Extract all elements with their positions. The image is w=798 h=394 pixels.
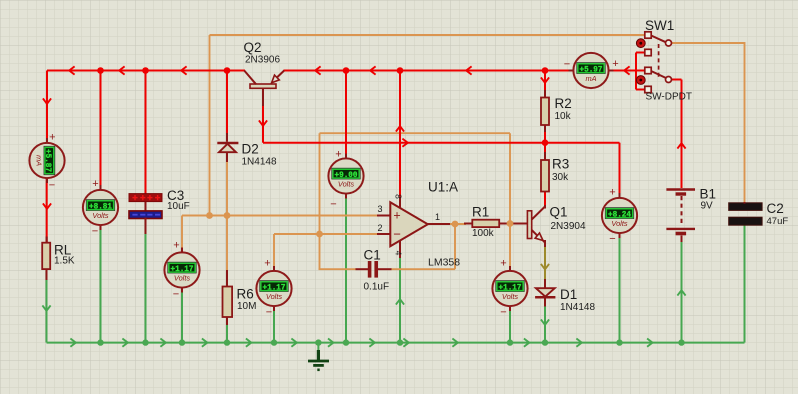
svg-text:+: + <box>335 149 341 161</box>
wire arrow g1 <box>70 339 75 347</box>
meter voltmeter VM5 +1.17 <box>509 266 511 273</box>
wire C1 left horizontal <box>319 268 357 270</box>
svg-text:Volts: Volts <box>92 211 108 220</box>
wire arrow g14 <box>42 305 50 310</box>
wire meter +8.24 drop <box>619 143 621 199</box>
wire Q2 base lead <box>262 89 264 107</box>
node mid junction R2 R3 <box>542 139 549 146</box>
svg-text:+: + <box>92 178 98 190</box>
node ground bus junction x545 <box>542 339 548 345</box>
wire arrow g6 <box>291 339 296 347</box>
wire U1 pin8 lead <box>399 197 401 209</box>
svg-text:−: − <box>609 233 615 245</box>
wire arrow g15 <box>677 290 685 295</box>
wire U1 pin4 lead <box>399 241 401 259</box>
wire RL to bus <box>46 279 48 343</box>
svg-text:B1: B1 <box>700 187 717 202</box>
wire arrow a2 <box>119 66 124 74</box>
battery B1 9V <box>666 188 695 190</box>
svg-text:+: + <box>500 258 506 270</box>
wire meter +8.81 to bus <box>100 225 102 343</box>
wire battery vertical <box>681 80 683 189</box>
wire D1 lead bottom <box>544 298 546 306</box>
svg-text:+: + <box>49 132 55 144</box>
node inv net junction <box>316 231 323 238</box>
svg-text:R3: R3 <box>552 157 569 172</box>
wire R6 lead bottom <box>226 317 228 326</box>
meter voltmeter VM1 +8.81 <box>100 185 102 192</box>
wire arrow g9 <box>403 339 408 347</box>
svg-text:SW1: SW1 <box>645 18 674 33</box>
wire arrow a11 <box>402 139 407 147</box>
wire C2 lead top <box>744 202 746 204</box>
node ground bus junction x681.5 <box>678 339 684 345</box>
wire arrow a1 <box>69 66 74 74</box>
svg-text:Volts: Volts <box>338 180 354 189</box>
wire C1 right horizontal <box>391 268 455 270</box>
wire meter +1.17 B to bus <box>273 306 275 343</box>
wire arrow g5 <box>246 339 251 347</box>
meter ammeter AM1 +5.87 mA <box>46 138 48 145</box>
wire switch to battery horizontal <box>669 79 682 81</box>
wire opamp pin4 to bus <box>399 257 401 343</box>
wire arrow D1 current down <box>541 264 549 269</box>
node ground bus junction x318.4 <box>315 339 321 345</box>
wire arrow g10 <box>452 339 457 347</box>
svg-text:Q1: Q1 <box>550 205 568 220</box>
wire R2 lead top <box>544 90 546 98</box>
wire arrow g3 <box>160 339 165 347</box>
wire arrow a10 <box>259 120 267 125</box>
capacitor C3 10uF <box>145 200 147 212</box>
wire U1 pin3 lead <box>377 215 390 217</box>
svg-text:LM358: LM358 <box>428 257 460 269</box>
wire C2 vertical <box>744 42 746 203</box>
switch SW1 SW-DPDT <box>650 35 666 42</box>
node ground bus junction x346 <box>343 339 349 345</box>
wire net top left vertical <box>209 35 211 216</box>
wire B1 lead bottom <box>681 236 683 243</box>
resistor R6 10M <box>223 287 233 318</box>
svg-text:SW-DPDT: SW-DPDT <box>646 92 692 103</box>
svg-text:Volts: Volts <box>502 292 518 301</box>
wire D2 lead top <box>226 133 228 142</box>
wire R3 lead top <box>544 152 546 160</box>
svg-text:−: − <box>330 199 336 211</box>
wire C1 lead right <box>378 268 392 270</box>
svg-text:1N4148: 1N4148 <box>242 157 277 168</box>
wire D2 drop <box>226 71 228 137</box>
wire ammeter drop <box>46 71 48 144</box>
svg-text:mA: mA <box>34 155 43 166</box>
switch toggle button 1 <box>636 39 645 48</box>
wire switch link stub top <box>636 52 645 54</box>
node ground bus junction x619.5 <box>616 339 622 345</box>
wire arrow a4 <box>315 66 320 74</box>
wire opamp pin8 drop <box>399 71 401 198</box>
meter voltmeter VM3 +1.17 <box>181 248 183 255</box>
switch toggle button 2 <box>636 76 645 85</box>
wire top bus right <box>284 70 574 72</box>
wire ground bus <box>47 342 745 344</box>
node ground bus junction x145.5 <box>142 339 148 345</box>
svg-text:1: 1 <box>435 212 440 222</box>
wire C3 to bus <box>145 233 147 343</box>
wire inv net meter drop <box>273 234 275 268</box>
node top bus junction x545 <box>542 67 549 74</box>
wire meter +1.17 A to bus <box>181 288 183 343</box>
svg-text:2: 2 <box>377 223 382 233</box>
wire +9.00 meter drop <box>345 71 347 160</box>
svg-text:8: 8 <box>394 194 404 199</box>
svg-text:0.1uF: 0.1uF <box>364 282 390 293</box>
svg-text:+: + <box>173 240 179 252</box>
wire input net horizontal <box>182 215 377 217</box>
wire arrow a5 <box>370 66 375 74</box>
node ground bus junction x274 <box>271 339 277 345</box>
capacitor C2 47uF <box>729 203 762 211</box>
svg-text:Volts: Volts <box>174 274 190 283</box>
svg-text:10uF: 10uF <box>167 201 190 212</box>
wire meter +8.81 drop <box>100 71 102 191</box>
diode D2 1N4148 <box>219 144 236 152</box>
svg-text:47uF: 47uF <box>767 216 789 227</box>
wire R2 lead bottom <box>544 125 546 133</box>
wire input net meter drop <box>181 216 183 250</box>
svg-text:3: 3 <box>377 204 382 214</box>
svg-text:1.5K: 1.5K <box>54 256 75 267</box>
wire feedback top horizontal <box>320 132 511 134</box>
resistor R1 100k <box>472 220 499 227</box>
wire RL lead bottom <box>46 269 48 280</box>
wire U1 pin1 lead <box>428 223 451 225</box>
resistor R3 30k <box>541 160 549 192</box>
svg-text:−: − <box>92 226 98 238</box>
svg-text:+: + <box>393 209 400 223</box>
wire feedback right vertical <box>509 133 511 268</box>
wire Q1 emitter to D1 <box>544 246 546 281</box>
ground <box>317 343 319 351</box>
svg-text:R1: R1 <box>472 205 489 220</box>
node top bus junction x100.5 <box>97 67 104 74</box>
wire arrow g16 <box>541 319 549 324</box>
svg-text:C2: C2 <box>767 201 784 216</box>
wire switch link vertical <box>635 53 637 90</box>
svg-text:10k: 10k <box>555 111 572 122</box>
wire inv net horizontal <box>274 233 377 235</box>
meter voltmeter VM6 +8.24 <box>619 193 621 200</box>
diode D1 1N4148 <box>536 288 555 296</box>
node top bus junction x227 <box>224 67 231 74</box>
node top bus junction x346 <box>343 67 350 74</box>
wire top bus left <box>47 70 245 72</box>
meter voltmeter VM4 +1.17 <box>273 266 275 273</box>
node ground bus junction x510 <box>507 339 513 345</box>
transistor Q2 2N3906 <box>250 84 276 88</box>
node top bus junction x400 <box>397 67 404 74</box>
svg-text:−: − <box>393 227 401 242</box>
svg-text:9V: 9V <box>701 201 714 212</box>
wire output to R1 <box>449 223 466 225</box>
capacitor C1 0.1uF <box>368 261 372 278</box>
wire arrow g12 <box>576 339 581 347</box>
svg-text:+: + <box>612 58 618 70</box>
svg-text:1N4148: 1N4148 <box>560 302 595 313</box>
transistor Q1 2N3904 <box>527 211 531 239</box>
wire arrow a6 <box>466 66 471 74</box>
wire D2 lead bottom <box>226 152 228 162</box>
svg-text:2N3906: 2N3906 <box>245 55 280 66</box>
node ground bus junction x400 <box>397 339 403 345</box>
svg-text:100k: 100k <box>472 228 495 239</box>
svg-text:−: − <box>500 307 506 319</box>
node input net junction x209.5 <box>206 212 213 219</box>
wire R2 top <box>544 71 546 99</box>
wire Q2 base down <box>262 104 264 143</box>
wire arrow a14 <box>677 143 685 148</box>
meter ammeter AM2 +5.97 mA <box>569 70 576 72</box>
wire arrow g7 <box>328 339 333 347</box>
wire C2 to bus <box>744 226 746 343</box>
wire arrow a12 <box>396 126 404 131</box>
svg-text:−: − <box>49 180 55 192</box>
node base net junction <box>507 220 514 227</box>
wire arrow g4 <box>202 339 207 347</box>
wire RL lead top <box>46 237 48 244</box>
node output net junction <box>452 221 459 228</box>
wire C3 lead bottom <box>145 218 147 235</box>
wire meter +8.24 to bus <box>619 233 621 343</box>
resistor R2 10k <box>541 98 549 126</box>
svg-text:−: − <box>266 307 272 319</box>
wire D1 lead top <box>544 279 546 288</box>
wire arrow g17 <box>396 299 404 304</box>
svg-text:D1: D1 <box>560 287 577 302</box>
wire arrow a13 <box>541 77 549 82</box>
svg-text:−: − <box>173 289 179 301</box>
wire mid horizontal <box>263 142 620 144</box>
wire U1 pin2 lead <box>377 233 390 235</box>
node top bus junction x145.5 <box>142 67 149 74</box>
node ground bus junction x182 <box>179 339 185 345</box>
svg-text:10M: 10M <box>237 301 256 312</box>
wire R1 lead left <box>464 223 473 225</box>
meter voltmeter VM2 +9.00 <box>345 154 347 161</box>
wire R3 to Q1 <box>544 192 546 209</box>
wire switch to C2 horizontal <box>669 42 745 44</box>
node ground bus junction x227 <box>224 339 230 345</box>
wire arrow a9 <box>43 203 51 208</box>
wire +9.00 meter to bus <box>345 194 347 343</box>
wire arrow g8 <box>369 339 374 347</box>
wire arrow g2 <box>122 339 127 347</box>
svg-text:U1:A: U1:A <box>428 180 458 195</box>
wire battery to bus <box>681 241 683 343</box>
wire D2 to R6 vertical <box>226 158 228 272</box>
svg-text:R6: R6 <box>237 287 254 302</box>
svg-text:C1: C1 <box>364 248 381 263</box>
resistor RL 1.5K <box>42 243 50 269</box>
wire ammeter to RL <box>46 178 48 243</box>
node input net junction x227 <box>224 212 231 219</box>
svg-text:4: 4 <box>394 251 404 256</box>
svg-text:2N3904: 2N3904 <box>551 221 586 232</box>
wire R2 to R3 <box>544 125 546 160</box>
wire arrow a7 <box>624 66 629 74</box>
svg-text:+: + <box>609 187 615 199</box>
svg-text:Volts: Volts <box>611 219 627 228</box>
wire net top horizontal <box>210 34 645 36</box>
wire Q1 collector lead <box>544 205 546 209</box>
wire arrow g11 <box>524 339 529 347</box>
svg-text:Q2: Q2 <box>244 40 262 55</box>
wire R1 lead right <box>499 223 528 225</box>
svg-text:R2: R2 <box>555 96 572 111</box>
wire feedback left vertical <box>319 133 321 269</box>
wire D1 to bus <box>544 306 546 343</box>
wire switch link stub bottom <box>636 89 645 91</box>
svg-text:−: − <box>564 59 570 71</box>
svg-text:Volts: Volts <box>266 292 282 301</box>
wire C1 to output vertical <box>454 224 456 269</box>
wire R6 to bus <box>226 324 228 343</box>
svg-text:+: + <box>264 258 270 270</box>
op-amp U1:A LM358 <box>390 202 428 246</box>
node ground bus junction x100.5 <box>97 339 103 345</box>
wire meter +1.17 C to bus <box>509 306 511 343</box>
wire arrow a3 <box>181 66 186 74</box>
wire Q1 emitter lead <box>544 240 546 247</box>
wire meter +5.97 to switch <box>609 70 645 72</box>
wire C1 lead left <box>356 268 369 270</box>
wire arrow g13 <box>647 339 652 347</box>
svg-text:30k: 30k <box>552 172 569 183</box>
svg-text:D2: D2 <box>242 142 259 157</box>
svg-text:mA: mA <box>585 74 596 83</box>
wire R6 lead top <box>226 270 228 287</box>
wire arrow a8 <box>43 98 51 103</box>
wire C3 drop <box>145 71 147 196</box>
